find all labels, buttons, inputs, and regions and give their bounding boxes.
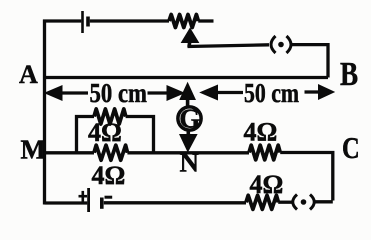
- dimension arrow: right 50 cm left head: [201, 85, 244, 99]
- galvanometer G: [178, 104, 201, 134]
- svg-text:4Ω: 4Ω: [244, 118, 278, 147]
- label: 4 ohm (resistor R3): [244, 118, 278, 147]
- svg-text:4Ω: 4Ω: [92, 161, 126, 190]
- node C label: [342, 131, 360, 165]
- arrow: galvanometer to N (down): [180, 129, 197, 152]
- rheostat wiper arrow: [182, 29, 199, 48]
- dimension arrow: left 50 cm left head: [45, 86, 88, 100]
- label: 50 cm (left): [90, 78, 148, 108]
- label: 4 ohm (resistor R4): [250, 170, 284, 199]
- wire: key K2 to corner C: [315, 200, 333, 203]
- wire MC middle segment: [127, 151, 249, 154]
- wire: top left horizontal: [43, 19, 81, 22]
- resistor R3 4ohm (MC right): [249, 145, 280, 160]
- wire: wiper to key K1: [188, 45, 270, 47]
- battery E2 (bottom): [89, 188, 102, 212]
- wire: left vertical trunk: [43, 20, 46, 205]
- node A label: [19, 60, 38, 89]
- wire: battery E2 to resistor R4: [104, 201, 246, 204]
- node M label: [21, 135, 46, 165]
- svg-text:50 cm: 50 cm: [90, 78, 148, 108]
- svg-text:M: M: [21, 135, 46, 165]
- wire: battery to rheostat: [90, 19, 169, 22]
- label: 4 ohm (box resistor R1): [88, 118, 122, 147]
- svg-text:B: B: [340, 55, 358, 93]
- wire AB (potentiometer wire): [43, 76, 328, 79]
- resistor R2 4ohm (on MC line): [94, 145, 128, 160]
- parallel box (left/top/right edges): [77, 117, 154, 153]
- key K2 (plug key): [293, 195, 315, 210]
- svg-text:A: A: [19, 60, 38, 89]
- resistor R4 4ohm (bottom): [246, 195, 278, 209]
- node B label: [340, 55, 358, 93]
- jockey arrow (up): [180, 83, 195, 108]
- svg-text:4Ω: 4Ω: [88, 118, 122, 147]
- rheostat Rh (zigzag): [169, 15, 198, 28]
- key K1 (plug key): [271, 36, 291, 53]
- wire: key K1 to corner B: [292, 45, 329, 78]
- label: 4 ohm (resistor R2): [92, 161, 126, 190]
- svg-text:4Ω: 4Ω: [250, 170, 284, 199]
- dimension arrow: right 50 cm right head: [305, 85, 335, 99]
- resistor R1 4ohm (box top): [94, 109, 126, 124]
- wire MC right segment to corner C: [280, 153, 333, 201]
- label: plus sign of E2: [79, 191, 88, 202]
- svg-text:C: C: [342, 131, 360, 165]
- label: 50 cm (right): [244, 78, 299, 108]
- wire MC left segment: [43, 151, 94, 154]
- battery E1 (top): [83, 11, 89, 33]
- wire: bottom left horizontal: [45, 201, 88, 204]
- wire: resistor R4 to key K2: [278, 201, 292, 204]
- svg-text:50 cm: 50 cm: [244, 78, 299, 108]
- svg-text:N: N: [180, 148, 200, 178]
- dimension arrow: left 50 cm right head: [148, 86, 185, 100]
- node N label: [180, 148, 200, 178]
- label: minus sign of E2: [105, 196, 113, 199]
- wire: rheostat right stub: [198, 19, 213, 22]
